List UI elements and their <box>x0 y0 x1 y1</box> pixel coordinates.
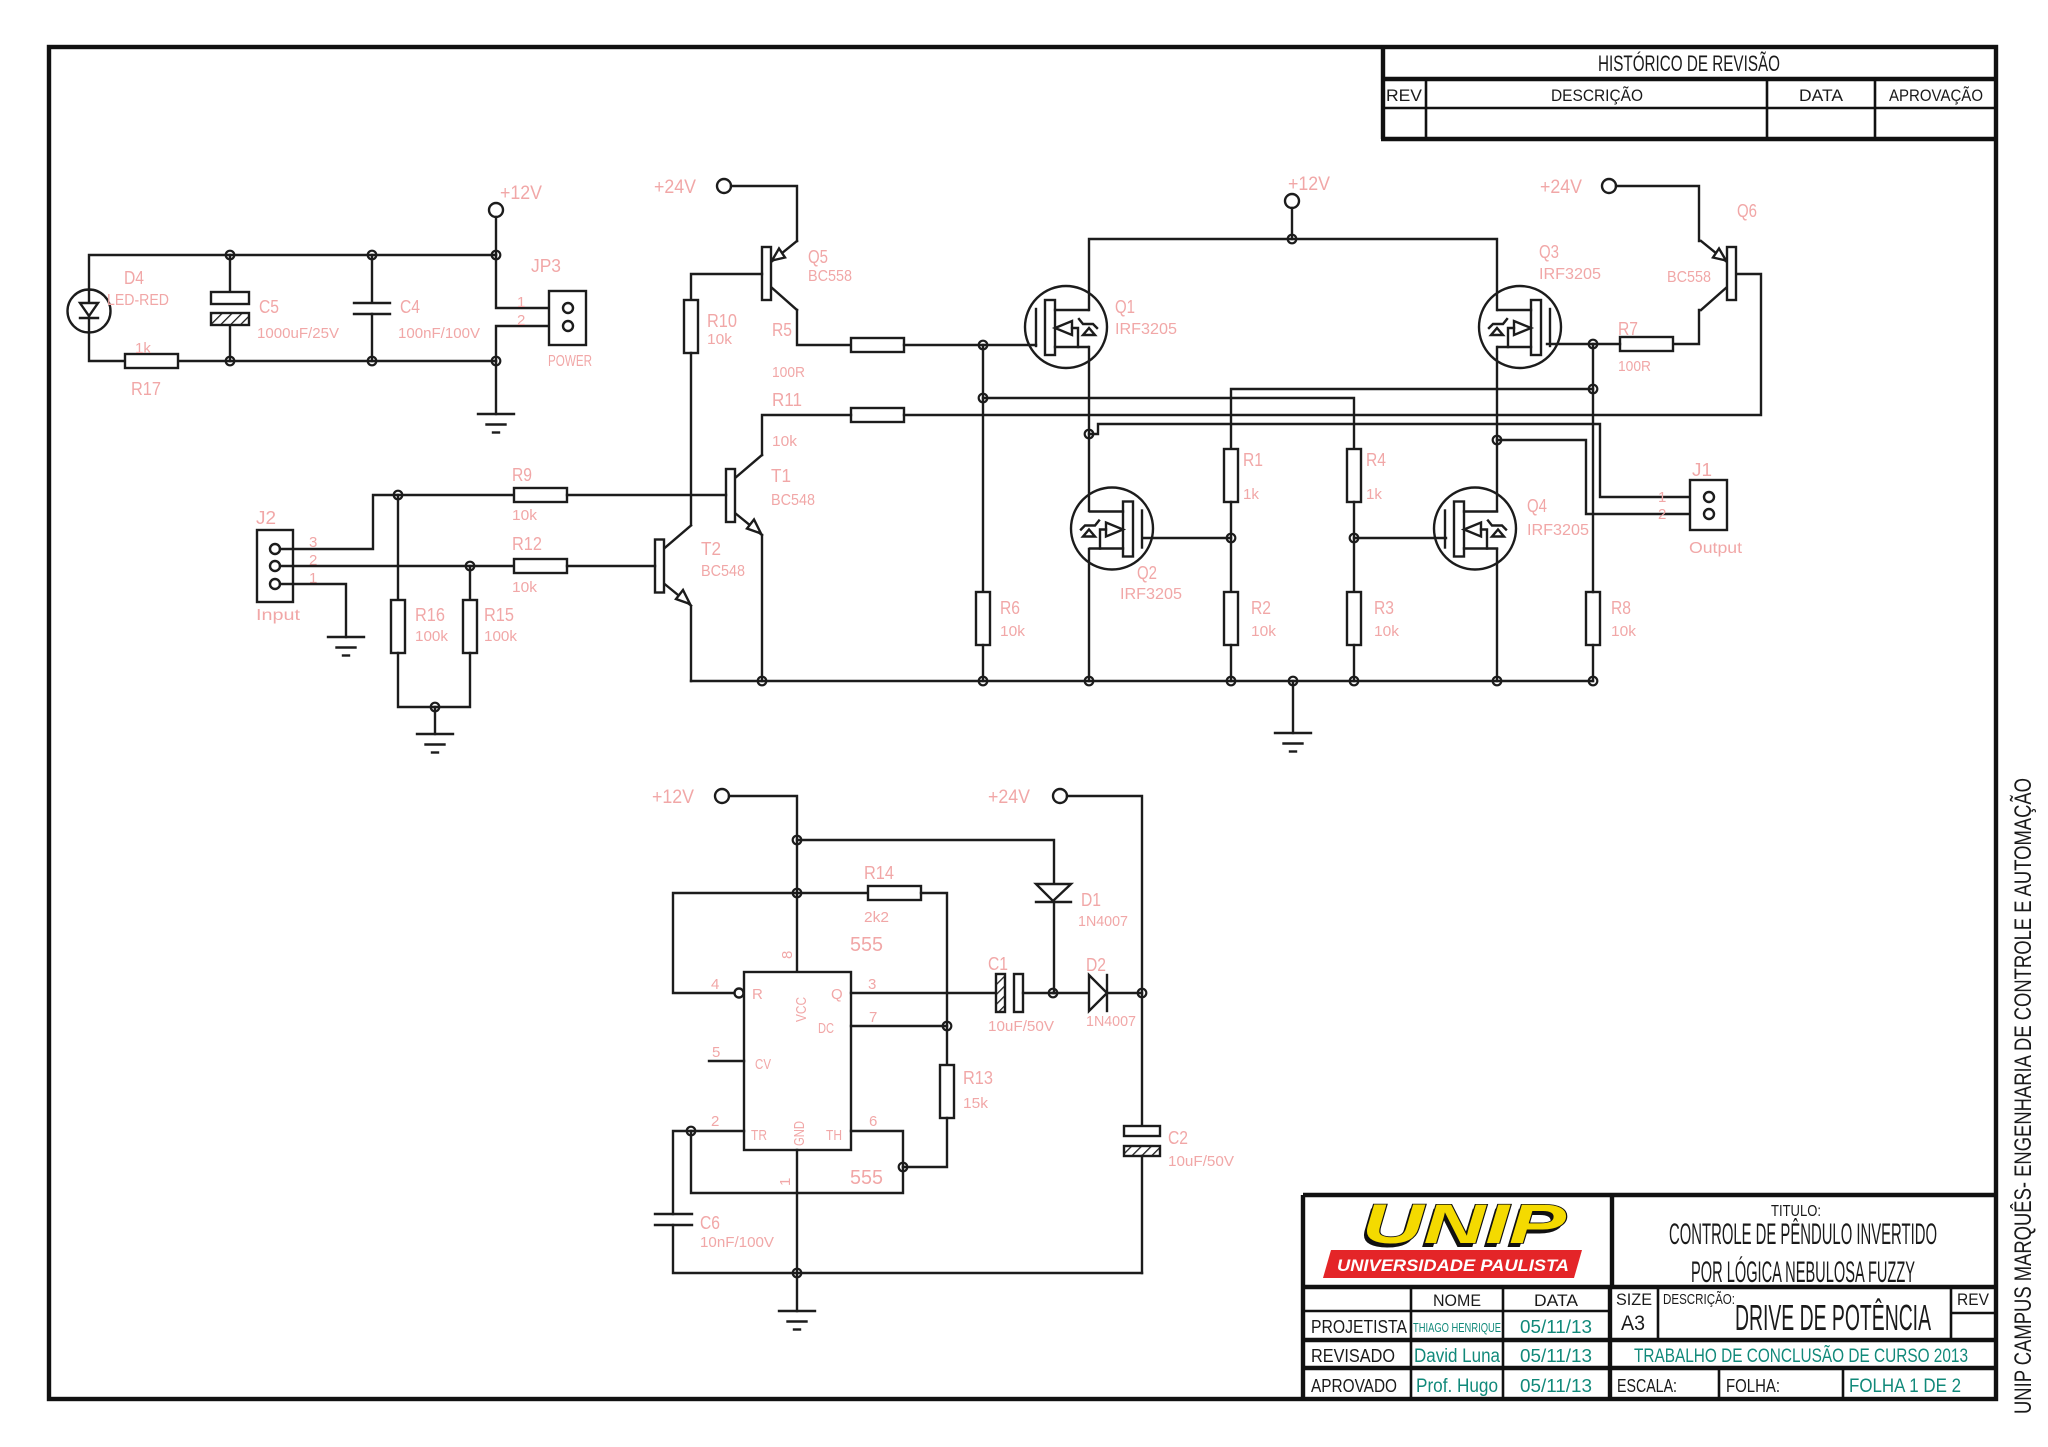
svg-text:100R: 100R <box>1618 358 1651 375</box>
wire +12V to 555 VCC column <box>729 796 797 972</box>
wire pin 5 stub <box>709 1060 744 1062</box>
svg-text:CV: CV <box>755 1056 771 1073</box>
junction (1089,681) <box>1085 677 1094 686</box>
wire ground stem bridge <box>1292 681 1294 733</box>
svg-text:C1: C1 <box>988 954 1008 974</box>
svg-text:R14: R14 <box>864 863 894 883</box>
svg-text:2k2: 2k2 <box>864 909 889 926</box>
svg-text:J1: J1 <box>1692 460 1712 480</box>
wire D1 cathode to junction <box>1053 902 1055 993</box>
svg-text:D4: D4 <box>124 268 144 288</box>
ground under JP3 <box>478 414 514 433</box>
capacitor C6 10nF/100V <box>655 1213 774 1251</box>
resistor R13 15k <box>940 1065 993 1118</box>
svg-text:DATA: DATA <box>1534 1291 1579 1310</box>
wire R12 to T2 base <box>567 565 655 567</box>
svg-text:POR LÓGICA NEBULOSA FUZZY: POR LÓGICA NEBULOSA FUZZY <box>1691 1256 1915 1289</box>
junction (1089,434) <box>1085 430 1094 439</box>
connector J1 Output <box>1658 460 1743 557</box>
svg-text:1k: 1k <box>1366 486 1383 503</box>
ground under 555 <box>779 1311 815 1330</box>
svg-text:Prof. Hugo: Prof. Hugo <box>1416 1376 1498 1397</box>
junction (797,840) <box>793 836 802 845</box>
node +12V terminal top middle <box>1285 174 1330 208</box>
svg-text:R3: R3 <box>1374 598 1394 618</box>
svg-text:T1: T1 <box>771 466 791 486</box>
svg-text:T2: T2 <box>701 539 721 559</box>
wire C1 to D1/D2 junction <box>1023 992 1053 994</box>
capacitor C2 10uF/50V <box>1124 1126 1234 1170</box>
wire R4 to R3 with Q4 gate tap <box>1353 502 1355 592</box>
transistor Q6 BC558 <box>1667 201 1757 310</box>
wire R13 bottom to TH junction <box>903 1118 947 1167</box>
junction (1231,538) <box>1227 534 1236 543</box>
mosfet Q3 IRF3205 <box>1479 242 1601 368</box>
svg-text:+24V: +24V <box>654 177 696 198</box>
resistor R10 10k <box>684 300 737 353</box>
svg-text:05/11/13: 05/11/13 <box>1520 1317 1592 1337</box>
svg-text:Q4: Q4 <box>1527 496 1547 516</box>
resistor R16 100k <box>391 600 449 653</box>
ic 555 timer <box>711 934 883 1189</box>
mosfet Q4 IRF3205 <box>1434 488 1589 570</box>
svg-text:1: 1 <box>1658 489 1666 506</box>
svg-text:10k: 10k <box>1611 623 1637 640</box>
wire T1 emitter column <box>761 535 763 681</box>
svg-text:JP3: JP3 <box>531 256 561 276</box>
wire bottom ground rail <box>691 680 1593 682</box>
svg-text:Output: Output <box>1689 540 1743 557</box>
junction (762,681) <box>758 677 767 686</box>
resistor R9 10k <box>512 465 567 524</box>
svg-text:APROVAÇÃO: APROVAÇÃO <box>1889 86 1983 105</box>
wire R10 bottom to T2 collector <box>690 353 692 525</box>
wire D2 cathode to +24V column <box>1107 992 1142 994</box>
svg-text:100R: 100R <box>772 364 805 381</box>
wire R14 right to R13 column <box>921 893 947 1065</box>
svg-text:05/11/13: 05/11/13 <box>1520 1376 1592 1396</box>
svg-text:TR: TR <box>751 1127 767 1144</box>
wire tap to R4 top <box>983 398 1354 449</box>
svg-text:2: 2 <box>1658 506 1666 523</box>
junction (1293,681) <box>1289 677 1298 686</box>
svg-text:10k: 10k <box>512 507 538 524</box>
svg-text:R1: R1 <box>1243 450 1263 470</box>
svg-text:7: 7 <box>869 1009 877 1026</box>
svg-text:REVISADO: REVISADO <box>1311 1346 1395 1366</box>
junction (691,1131) <box>687 1127 696 1136</box>
svg-text:6: 6 <box>869 1113 877 1130</box>
diode D2 1N4007 <box>1086 955 1136 1030</box>
wire gate divider column R5/R6 <box>982 345 984 592</box>
svg-text:FOLHA 1 DE 2: FOLHA 1 DE 2 <box>1849 1376 1961 1397</box>
wire R5 to Q1 gate <box>904 344 1036 346</box>
wire bottom rail D4/R17/C5/C4 <box>89 333 496 361</box>
svg-text:UNIVERSIDADE PAULISTA: UNIVERSIDADE PAULISTA <box>1337 1256 1569 1275</box>
wire J2 pin1 to ground <box>280 584 346 637</box>
wire top rail D4 to +12V column <box>89 255 496 290</box>
wire Q5 collector to R5 <box>797 310 851 345</box>
node +12V terminal top left <box>489 183 542 217</box>
svg-text:1000uF/25V: 1000uF/25V <box>257 325 339 342</box>
svg-text:10k: 10k <box>1251 623 1277 640</box>
svg-text:1N4007: 1N4007 <box>1086 1013 1136 1030</box>
junction (1292,239) <box>1288 235 1297 244</box>
junction (797,893) <box>793 889 802 898</box>
svg-text:R6: R6 <box>1000 598 1020 618</box>
junction (1497,681) <box>1493 677 1502 686</box>
svg-text:R2: R2 <box>1251 598 1271 618</box>
junction (1142,993) <box>1138 989 1147 998</box>
wire output B to J1 pin2 <box>1497 440 1704 514</box>
resistor R7 100R <box>1618 319 1673 375</box>
wire JP3 pin2 to ground rail <box>496 326 563 361</box>
transistor T1 BC548 <box>726 455 815 535</box>
svg-text:R4: R4 <box>1366 450 1386 470</box>
svg-text:A3: A3 <box>1621 1312 1645 1335</box>
svg-text:15k: 15k <box>963 1095 989 1112</box>
wire R2 bottom <box>1230 645 1232 681</box>
wire pin 3 to C1 <box>851 992 996 994</box>
wire Q1 source column to Q2 drain <box>1088 347 1090 511</box>
wire R3 bottom <box>1353 645 1355 681</box>
UNIP logo <box>1323 1192 1582 1278</box>
wire R16 column <box>397 495 399 600</box>
svg-text:Q3: Q3 <box>1539 242 1559 262</box>
resistor R3 10k <box>1347 592 1400 645</box>
resistor R4 1k <box>1347 449 1386 503</box>
svg-text:R12: R12 <box>512 534 542 554</box>
wire R16/R15 bottoms joined <box>398 653 470 707</box>
svg-text:IRF3205: IRF3205 <box>1115 321 1177 338</box>
svg-text:BC558: BC558 <box>1667 269 1711 286</box>
wire C2 bottom to ground rail <box>1141 1156 1143 1273</box>
wire R9 to T1 base <box>567 494 726 496</box>
svg-text:C4: C4 <box>400 297 420 317</box>
junction (1053,993) <box>1049 989 1058 998</box>
svg-text:TH: TH <box>826 1127 842 1144</box>
wire Q4 source column <box>1496 549 1498 681</box>
svg-text:GND: GND <box>791 1121 808 1146</box>
svg-text:4: 4 <box>711 976 719 993</box>
svg-text:10k: 10k <box>1000 623 1026 640</box>
svg-text:10k: 10k <box>512 579 538 596</box>
svg-text:David Luna: David Luna <box>1414 1346 1500 1367</box>
svg-text:R5: R5 <box>772 320 792 340</box>
wire pin 6 lead <box>851 1131 903 1167</box>
wire R11 left to T1 collector <box>762 415 851 455</box>
wire R6 bottom <box>982 645 984 681</box>
svg-text:+12V: +12V <box>652 787 694 808</box>
resistor R14 2k2 <box>864 863 921 926</box>
svg-text:DC: DC <box>818 1020 834 1037</box>
junction (496,361) <box>492 357 501 366</box>
junction (372,255) <box>368 251 377 260</box>
capacitor C1 10uF/50V <box>988 954 1054 1035</box>
resistor R12 10k <box>512 534 567 596</box>
wire C5 risers <box>229 255 231 361</box>
resistor R6 10k <box>976 592 1026 645</box>
svg-text:J2: J2 <box>256 508 276 528</box>
svg-text:BC548: BC548 <box>771 492 815 509</box>
node +24V terminal left <box>654 177 731 198</box>
wire Q3 source column to Q4 drain <box>1496 347 1498 511</box>
svg-text:DESCRIÇÃO: DESCRIÇÃO <box>1551 86 1643 105</box>
svg-text:100nF/100V: 100nF/100V <box>398 325 480 342</box>
svg-text:IRF3205: IRF3205 <box>1527 522 1589 539</box>
ground under bridge <box>1275 733 1311 752</box>
wire R7 left to Q3 gate <box>1547 343 1620 345</box>
resistor R17 1k <box>125 340 178 399</box>
junction (1593,344) <box>1589 340 1598 349</box>
svg-text:DRIVE DE POTÊNCIA: DRIVE DE POTÊNCIA <box>1735 1297 1931 1338</box>
wire pin 2 lead <box>673 1131 744 1214</box>
wire C6 bottom to ground rail <box>673 1225 1142 1273</box>
svg-text:R8: R8 <box>1611 598 1631 618</box>
svg-text:10k: 10k <box>1374 623 1400 640</box>
svg-text:D1: D1 <box>1081 890 1101 910</box>
svg-text:REV: REV <box>1957 1290 1990 1309</box>
svg-text:DESCRIÇÃO:: DESCRIÇÃO: <box>1663 1291 1735 1308</box>
svg-text:10k: 10k <box>772 433 798 450</box>
svg-text:2: 2 <box>517 312 525 329</box>
svg-text:R7: R7 <box>1618 319 1638 339</box>
svg-text:R13: R13 <box>963 1068 993 1088</box>
svg-text:D2: D2 <box>1086 955 1106 975</box>
wire R15 column <box>469 566 471 600</box>
wire Q2 source column <box>1088 549 1090 681</box>
wire 555 GND pin column <box>796 1150 798 1311</box>
wire +12V column to JP3 pin1 <box>496 255 563 308</box>
wire J2 pin3 to R9 <box>280 495 514 549</box>
wire Q2 gate lead <box>1143 537 1231 539</box>
svg-text:Input: Input <box>256 607 301 624</box>
junction (1354,538) <box>1350 534 1359 543</box>
node +24V terminal right <box>1540 177 1616 198</box>
led D4 LED-RED <box>68 268 170 333</box>
wire pin 7 to R13 column <box>851 1025 947 1027</box>
wire output A jog to J1 pin1 <box>1089 424 1704 497</box>
svg-text:VCC: VCC <box>793 997 810 1022</box>
junction (1231,681) <box>1227 677 1236 686</box>
wire +12V stem <box>495 217 497 255</box>
junction (1497,440) <box>1493 436 1502 445</box>
ground under J2 <box>328 637 364 656</box>
junction (230,255) <box>226 251 235 260</box>
mosfet Q2 IRF3205 <box>1071 488 1182 604</box>
svg-text:10k: 10k <box>707 331 733 348</box>
connector J2 Input <box>256 508 317 624</box>
wire R11 right rail to Q6 base <box>904 274 1761 415</box>
svg-text:NOME: NOME <box>1433 1291 1481 1310</box>
junction (435,707) <box>431 703 440 712</box>
svg-text:10uF/50V: 10uF/50V <box>988 1018 1054 1035</box>
junction (1593,389) <box>1589 385 1598 394</box>
capacitor C5 1000uF/25V <box>211 292 339 342</box>
svg-text:5: 5 <box>712 1044 720 1061</box>
wire +24V to Q5 emitter <box>731 186 797 241</box>
node +12V terminal 555 <box>652 787 729 808</box>
wire R7 column down to R8 <box>1592 344 1594 592</box>
svg-text:UNIP CAMPUS MARQUÊS- ENGENHARI: UNIP CAMPUS MARQUÊS- ENGENHARIA DE CONTR… <box>2010 778 2037 1414</box>
mosfet Q1 IRF3205 <box>1025 286 1177 368</box>
revision history table <box>1381 47 1996 139</box>
svg-text:IRF3205: IRF3205 <box>1539 266 1601 283</box>
junction (398,495) <box>394 491 403 500</box>
svg-text:3: 3 <box>868 976 876 993</box>
svg-text:PROJETISTA: PROJETISTA <box>1311 1317 1407 1337</box>
wire ground stem R15/R16 <box>434 707 436 734</box>
junction (496,255) <box>492 251 501 260</box>
title block <box>1303 1195 1996 1399</box>
svg-text:R: R <box>752 986 763 1003</box>
svg-text:ESCALA:: ESCALA: <box>1617 1376 1677 1396</box>
wire junction to D2 anode <box>1053 992 1089 994</box>
wire Q4 gate lead <box>1354 537 1446 539</box>
svg-text:R17: R17 <box>131 379 161 399</box>
svg-text:10nF/100V: 10nF/100V <box>700 1234 774 1251</box>
diode D1 1N4007 <box>1036 884 1128 930</box>
svg-text:+24V: +24V <box>1540 177 1582 198</box>
svg-text:HISTÓRICO DE REVISÃO: HISTÓRICO DE REVISÃO <box>1598 51 1780 76</box>
svg-text:1N4007: 1N4007 <box>1078 913 1128 930</box>
node +24V terminal 555 <box>988 787 1067 808</box>
capacitor C4 100nF/100V <box>354 297 480 342</box>
wire +24V column to C2 <box>1067 796 1142 1126</box>
svg-text:IRF3205: IRF3205 <box>1120 586 1182 603</box>
junction (947,1026) <box>943 1022 952 1031</box>
resistor R5 100R <box>772 320 904 381</box>
svg-text:05/11/13: 05/11/13 <box>1520 1346 1592 1366</box>
svg-text:Q5: Q5 <box>808 247 828 267</box>
svg-text:Q: Q <box>831 986 843 1003</box>
svg-text:+12V: +12V <box>500 183 542 204</box>
svg-text:2: 2 <box>711 1113 719 1130</box>
wire TR-TH loop <box>691 1131 903 1193</box>
ground under R15/R16 <box>417 734 453 753</box>
svg-text:Q6: Q6 <box>1737 201 1757 221</box>
wire ground column under JP3 <box>495 361 497 414</box>
svg-text:100k: 100k <box>415 628 449 645</box>
svg-text:CONTROLE DE PÊNDULO INVERTIDO: CONTROLE DE PÊNDULO INVERTIDO <box>1669 1218 1937 1251</box>
junction (470,566) <box>466 562 475 571</box>
svg-text:TRABALHO DE CONCLUSÃO DE CURSO: TRABALHO DE CONCLUSÃO DE CURSO 2013 <box>1634 1345 1968 1367</box>
wire VCC rail to D1 anode <box>797 840 1054 884</box>
svg-text:100k: 100k <box>484 628 518 645</box>
svg-text:R15: R15 <box>484 605 514 625</box>
resistor R15 100k <box>463 600 518 653</box>
svg-text:BC548: BC548 <box>701 563 745 580</box>
svg-text:C6: C6 <box>700 1213 720 1233</box>
wire +12V stem to top rail <box>1291 208 1293 239</box>
svg-text:R10: R10 <box>707 311 737 331</box>
junction (797,1273) <box>793 1269 802 1278</box>
svg-text:UNIP: UNIP <box>1362 1192 1567 1255</box>
junction (903,1167) <box>899 1163 908 1172</box>
wire reset loop to pin 4 <box>673 893 797 993</box>
wire R1 top tap to R7 column <box>1231 389 1593 449</box>
connector JP3 POWER <box>517 256 592 370</box>
resistor R11 10k <box>772 390 904 450</box>
wire J2 pin2 to R12 <box>280 565 514 567</box>
svg-text:10uF/50V: 10uF/50V <box>1168 1153 1234 1170</box>
svg-text:R11: R11 <box>772 390 802 410</box>
svg-text:C2: C2 <box>1168 1128 1188 1148</box>
svg-text:SIZE: SIZE <box>1616 1290 1652 1309</box>
svg-text:555: 555 <box>850 934 883 956</box>
junction (230,361) <box>226 357 235 366</box>
junction (1354,681) <box>1350 677 1359 686</box>
svg-text:Q2: Q2 <box>1137 563 1157 583</box>
junction (372,361) <box>368 357 377 366</box>
svg-text:1: 1 <box>517 294 525 311</box>
svg-text:REV: REV <box>1386 86 1423 105</box>
wire R8 bottom <box>1592 645 1594 681</box>
svg-text:C5: C5 <box>259 297 279 317</box>
svg-text:R16: R16 <box>415 605 445 625</box>
svg-text:1: 1 <box>777 1178 794 1186</box>
svg-text:THIAGO HENRIQUE: THIAGO HENRIQUE <box>1413 1321 1501 1335</box>
wire +24V to Q6 emitter <box>1616 186 1699 241</box>
resistor R8 10k <box>1586 592 1637 645</box>
transistor Q5 BC558 <box>762 241 852 310</box>
svg-text:1k: 1k <box>135 340 152 357</box>
svg-text:R9: R9 <box>512 465 532 485</box>
svg-text:POWER: POWER <box>548 353 592 370</box>
svg-text:Q1: Q1 <box>1115 297 1135 317</box>
wire R1 to R2 with Q2 gate tap <box>1230 502 1232 592</box>
resistor R1 1k <box>1224 449 1263 503</box>
junction (983,398) <box>979 394 988 403</box>
svg-text:1k: 1k <box>1243 486 1260 503</box>
svg-text:DATA: DATA <box>1799 86 1844 105</box>
svg-text:555: 555 <box>850 1167 883 1189</box>
transistor T2 BC548 <box>655 526 745 606</box>
wire T2 emitter column <box>690 607 692 681</box>
resistor R2 10k <box>1224 592 1277 645</box>
wire R14 left lead <box>797 892 868 894</box>
svg-text:APROVADO: APROVADO <box>1311 1376 1397 1396</box>
svg-text:+24V: +24V <box>988 787 1030 808</box>
wire C4 risers <box>371 255 373 361</box>
wire Q6 collector to R7 <box>1673 310 1699 344</box>
svg-text:+12V: +12V <box>1288 174 1330 195</box>
junction (1593,681) <box>1589 677 1598 686</box>
junction (983,345) <box>979 341 988 350</box>
svg-text:FOLHA:: FOLHA: <box>1726 1376 1780 1396</box>
svg-text:BC558: BC558 <box>808 268 852 285</box>
junction (983,681) <box>979 677 988 686</box>
wire top rail Q1 to Q3 <box>1089 239 1497 310</box>
svg-text:LED-RED: LED-RED <box>107 292 169 309</box>
wire Q5 base to R10 <box>691 274 762 300</box>
svg-text:8: 8 <box>779 951 796 959</box>
